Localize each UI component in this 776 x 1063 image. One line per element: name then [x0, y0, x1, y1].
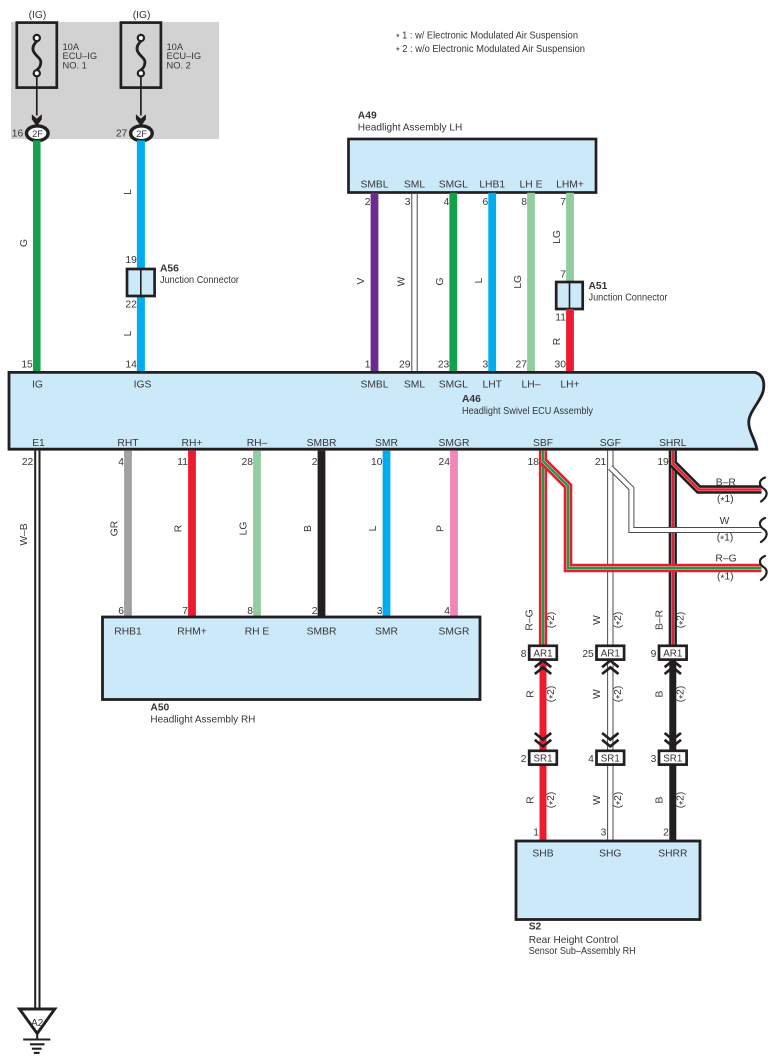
svg-text:6: 6	[482, 197, 488, 208]
wire SML (W) white	[411, 193, 413, 371]
wire W SR1 to S2	[607, 765, 609, 841]
svg-text:3: 3	[377, 606, 383, 617]
svg-text:(*1): (*1)	[717, 494, 734, 507]
svg-text:B–R: B–R	[654, 610, 665, 630]
svg-text:RHT: RHT	[117, 438, 139, 449]
svg-text:LG: LG	[552, 230, 563, 244]
svg-text:RH+: RH+	[182, 438, 203, 449]
svg-text:A50: A50	[150, 702, 169, 713]
svg-text:(*2): (*2)	[676, 792, 689, 809]
svg-text:3: 3	[601, 827, 607, 838]
svg-text:11: 11	[177, 457, 188, 468]
svg-text:B–R: B–R	[716, 477, 736, 488]
svg-text:SML: SML	[404, 379, 425, 390]
svg-text:(IG): (IG)	[133, 10, 151, 21]
connector arrows down	[602, 733, 618, 746]
svg-text:SMGL: SMGL	[439, 379, 468, 390]
svg-text:3: 3	[405, 197, 411, 208]
svg-text:G: G	[19, 239, 30, 247]
svg-text:R: R	[174, 525, 185, 532]
wire LG to A50	[253, 451, 261, 617]
svg-text:6: 6	[118, 606, 124, 617]
svg-text:S2: S2	[529, 921, 542, 932]
svg-text:A46: A46	[462, 394, 481, 405]
svg-text:L: L	[123, 189, 134, 195]
wire R to A50	[188, 451, 196, 617]
svg-text:SMGR: SMGR	[439, 438, 470, 449]
headlight assembly RH A50 box	[103, 617, 481, 700]
wire SGF (W) white vertical	[607, 451, 609, 646]
connector oval 2F pin 16	[27, 126, 49, 141]
svg-text:E1: E1	[32, 438, 45, 449]
svg-text:A56: A56	[160, 263, 179, 274]
wire LHM+ upper (LG) light green	[566, 193, 574, 282]
ground A2	[20, 1009, 55, 1034]
wire GR to A50	[124, 451, 132, 617]
svg-text:AR1: AR1	[533, 649, 552, 660]
svg-text:SML: SML	[404, 180, 425, 191]
svg-text:SHB: SHB	[532, 849, 553, 860]
svg-text:B: B	[654, 690, 665, 697]
svg-text:W: W	[592, 795, 603, 805]
svg-text:SR1: SR1	[601, 754, 620, 765]
wire B SR1 to S2	[669, 765, 676, 841]
svg-text:SGF: SGF	[600, 438, 621, 449]
svg-text:L: L	[123, 330, 134, 336]
svg-text:* 1 : w/ Electronic Modulated: * 1 : w/ Electronic Modulated Air Suspen…	[396, 31, 578, 44]
svg-text:2F: 2F	[32, 129, 43, 139]
break symbol W	[760, 518, 767, 542]
connector SR1 pin 4	[597, 751, 625, 765]
wire IG (G) green	[33, 140, 41, 371]
svg-text:4: 4	[444, 197, 450, 208]
wire L to A50	[383, 451, 391, 617]
svg-text:IG: IG	[32, 379, 43, 390]
svg-text:2: 2	[521, 754, 527, 765]
svg-text:24: 24	[439, 457, 451, 468]
connector AR1 pin 9	[659, 646, 687, 660]
svg-text:8: 8	[521, 649, 527, 660]
svg-text:LG: LG	[513, 275, 524, 289]
svg-text:L: L	[474, 277, 485, 283]
svg-text:G: G	[435, 277, 446, 285]
svg-text:SBF: SBF	[533, 438, 553, 449]
svg-text:Headlight Assembly LH: Headlight Assembly LH	[358, 123, 463, 134]
svg-text:V: V	[356, 277, 367, 284]
svg-text:R: R	[552, 338, 563, 345]
svg-text:19: 19	[125, 255, 137, 266]
break symbol R-G	[760, 556, 767, 580]
wire SHRL (B-R) striped vertical	[669, 451, 677, 646]
svg-text:SR1: SR1	[663, 754, 682, 765]
svg-text:1: 1	[365, 360, 371, 371]
svg-text:Headlight Swivel ECU Assembly: Headlight Swivel ECU Assembly	[462, 406, 594, 417]
svg-text:RH–: RH–	[247, 438, 268, 449]
svg-text:29: 29	[399, 360, 411, 371]
wire LH E (LG) light green	[527, 193, 535, 371]
svg-text:SMR: SMR	[375, 627, 398, 638]
svg-text:SMBR: SMBR	[307, 627, 337, 638]
svg-text:2: 2	[312, 606, 318, 617]
fuse 10A ECU-IG NO. 1	[17, 23, 57, 127]
svg-text:W: W	[720, 516, 730, 527]
svg-text:(*2): (*2)	[613, 686, 626, 703]
wire IGS (L) blue upper	[137, 140, 145, 371]
connector arrows down	[535, 733, 551, 746]
junction connector A56	[127, 269, 155, 296]
svg-text:22: 22	[125, 300, 137, 311]
svg-text:22: 22	[22, 457, 34, 468]
svg-text:7: 7	[182, 606, 188, 617]
svg-text:R: R	[525, 796, 536, 803]
connector arrows down	[665, 733, 681, 746]
svg-text:2: 2	[663, 827, 669, 838]
svg-text:2: 2	[365, 197, 371, 208]
svg-text:LHT: LHT	[482, 379, 502, 390]
svg-text:30: 30	[555, 360, 567, 371]
connector AR1 pin 25	[597, 646, 625, 660]
svg-text:LH E: LH E	[520, 180, 543, 191]
svg-text:GR: GR	[110, 521, 121, 536]
svg-text:P: P	[436, 525, 447, 532]
svg-text:LH+: LH+	[560, 379, 579, 390]
svg-text:NO. 2: NO. 2	[167, 60, 191, 70]
branch wire B-R to *1	[673, 464, 762, 490]
svg-text:Junction Connector: Junction Connector	[160, 275, 239, 286]
svg-text:2F: 2F	[136, 129, 147, 139]
svg-text:Rear Height Control: Rear Height Control	[529, 935, 619, 946]
svg-text:4: 4	[444, 606, 450, 617]
connector arrows up	[665, 661, 681, 674]
svg-text:2: 2	[312, 457, 318, 468]
svg-text:R–G: R–G	[715, 553, 736, 564]
svg-text:1: 1	[533, 827, 539, 838]
svg-text:* 2 : w/o Electronic Modulated: * 2 : w/o Electronic Modulated Air Suspe…	[396, 44, 585, 57]
svg-text:B: B	[303, 525, 314, 532]
svg-text:SHG: SHG	[599, 849, 621, 860]
wire LHB1 (L) blue	[488, 193, 496, 371]
wire R AR1 to SR1	[540, 660, 547, 751]
wire E1 (W-B) double line	[34, 451, 36, 1009]
svg-text:(*2): (*2)	[546, 792, 559, 809]
svg-text:(*1): (*1)	[717, 533, 734, 546]
svg-text:SMBR: SMBR	[307, 438, 337, 449]
ECU A46 Headlight Swivel ECU Assembly box	[9, 372, 764, 449]
power rail background box	[11, 22, 219, 139]
svg-text:Headlight Assembly RH: Headlight Assembly RH	[150, 714, 255, 725]
headlight assembly LH A49 box	[349, 139, 597, 193]
svg-text:A2: A2	[31, 1018, 44, 1029]
branch wire W to *1	[610, 468, 761, 531]
svg-text:8: 8	[521, 197, 527, 208]
svg-text:21: 21	[595, 457, 607, 468]
svg-text:8: 8	[247, 606, 253, 617]
svg-text:SR1: SR1	[533, 754, 552, 765]
svg-text:R: R	[525, 690, 536, 697]
svg-text:(*2): (*2)	[546, 612, 559, 629]
svg-text:W: W	[396, 276, 407, 286]
svg-text:W: W	[592, 615, 603, 625]
svg-text:(*1): (*1)	[717, 571, 734, 584]
svg-text:(*2): (*2)	[613, 612, 626, 629]
rear height control sensor S2 box	[516, 841, 700, 920]
svg-text:LG: LG	[239, 522, 250, 536]
svg-text:27: 27	[516, 360, 528, 371]
svg-text:SHRL: SHRL	[659, 438, 687, 449]
connector SR1 pin 3	[659, 751, 687, 765]
svg-text:NO. 1: NO. 1	[63, 60, 87, 70]
svg-text:SMGR: SMGR	[439, 627, 470, 638]
svg-text:Sensor Sub–Assembly RH: Sensor Sub–Assembly RH	[529, 946, 636, 957]
svg-text:27: 27	[116, 128, 128, 139]
break symbol B-R	[760, 478, 767, 502]
svg-text:4: 4	[588, 754, 594, 765]
svg-text:R–G: R–G	[525, 609, 536, 630]
svg-text:28: 28	[242, 457, 254, 468]
svg-text:SMR: SMR	[375, 438, 398, 449]
svg-text:LH–: LH–	[522, 379, 541, 390]
wire P to A50	[450, 451, 458, 617]
svg-text:SMBL: SMBL	[360, 379, 388, 390]
svg-text:LHM+: LHM+	[556, 180, 584, 191]
svg-text:4: 4	[118, 457, 124, 468]
svg-text:16: 16	[12, 128, 24, 139]
branch wire R-G to *1	[543, 461, 762, 568]
svg-text:19: 19	[657, 457, 669, 468]
svg-text:(*2): (*2)	[676, 686, 689, 703]
wire SBF (R-G) striped vertical	[539, 451, 547, 646]
wire R SR1 to S2	[540, 765, 547, 841]
svg-text:L: L	[368, 525, 379, 531]
svg-text:(*2): (*2)	[546, 686, 559, 703]
svg-text:3: 3	[651, 754, 657, 765]
connector SR1 pin 2	[529, 751, 557, 765]
fuse 10A ECU-IG NO. 2	[121, 23, 161, 127]
svg-text:AR1: AR1	[663, 649, 682, 660]
svg-text:15: 15	[21, 360, 33, 371]
svg-text:LHB1: LHB1	[479, 180, 505, 191]
svg-text:10: 10	[371, 457, 383, 468]
wire B to A50	[318, 451, 326, 617]
svg-text:SMBL: SMBL	[360, 180, 388, 191]
svg-text:(*2): (*2)	[676, 612, 689, 629]
svg-text:B: B	[654, 796, 665, 803]
connector AR1 pin 8	[529, 646, 557, 660]
wire W AR1 to SR1	[607, 660, 609, 751]
svg-text:(IG): (IG)	[29, 10, 47, 21]
svg-text:IGS: IGS	[134, 379, 152, 390]
junction connector A51	[556, 282, 583, 309]
wire LHM+ lower (R) red	[566, 309, 574, 371]
wire SMGL (G) green	[449, 193, 457, 371]
wire SMBL (V) purple	[371, 193, 379, 371]
svg-text:RHM+: RHM+	[177, 627, 206, 638]
wire B AR1 to SR1	[669, 660, 676, 751]
svg-text:7: 7	[560, 270, 566, 281]
svg-text:3: 3	[482, 360, 488, 371]
connector arrows up	[602, 661, 618, 674]
svg-text:SMGL: SMGL	[439, 180, 468, 191]
svg-text:9: 9	[651, 649, 657, 660]
svg-text:25: 25	[582, 649, 594, 660]
svg-text:23: 23	[438, 360, 450, 371]
connector arrows up	[535, 661, 551, 674]
svg-text:A51: A51	[589, 281, 608, 292]
svg-text:RHB1: RHB1	[114, 627, 142, 638]
svg-text:SHRR: SHRR	[658, 849, 687, 860]
svg-text:AR1: AR1	[601, 649, 620, 660]
svg-text:14: 14	[125, 360, 137, 371]
svg-text:11: 11	[555, 313, 566, 324]
svg-text:7: 7	[560, 197, 566, 208]
svg-text:(*2): (*2)	[613, 792, 626, 809]
connector oval 2F pin 27	[131, 126, 153, 141]
svg-text:A49: A49	[358, 111, 377, 122]
svg-text:W–B: W–B	[19, 523, 30, 545]
svg-text:W: W	[592, 689, 603, 699]
svg-text:RH E: RH E	[245, 627, 270, 638]
svg-text:18: 18	[528, 457, 540, 468]
svg-text:Junction Connector: Junction Connector	[589, 293, 668, 304]
